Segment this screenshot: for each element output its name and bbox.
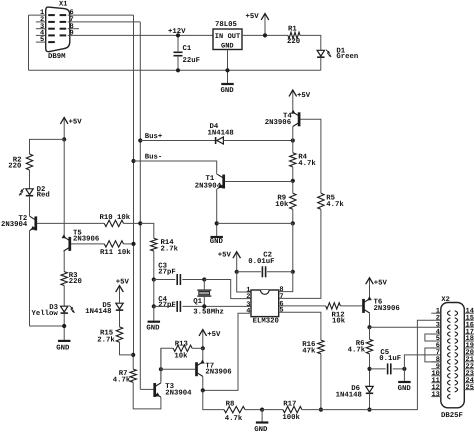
wire R16 bottom bbox=[320, 354, 322, 410]
wire Bus+ to D4 bbox=[140, 140, 215, 142]
resistor R6 bbox=[366, 339, 372, 354]
svg-text:4.7k: 4.7k bbox=[113, 376, 131, 385]
capacitor C5 bbox=[388, 363, 391, 374]
svg-text:13: 13 bbox=[431, 391, 439, 399]
svg-text:Q1: Q1 bbox=[193, 298, 202, 306]
label 2N3906 (T6) bbox=[374, 305, 400, 313]
label R13 bbox=[175, 340, 189, 348]
resistor R4 bbox=[290, 153, 296, 167]
label GND (crystal) bbox=[146, 324, 160, 332]
wire T6 collector bbox=[369, 313, 371, 327]
junction D3 bottom bbox=[62, 324, 66, 328]
svg-text:R17: R17 bbox=[283, 401, 296, 409]
X1 pin 2 lead bbox=[36, 21, 46, 23]
label GND (78L05) bbox=[221, 43, 234, 51]
wire C3 to crystal top bbox=[182, 279, 204, 281]
wire R6 to D6 bbox=[369, 354, 371, 387]
label X2 bbox=[441, 296, 449, 304]
label Q1 bbox=[193, 298, 202, 306]
svg-text:R13: R13 bbox=[175, 340, 189, 348]
junction R9 bottom bbox=[291, 221, 295, 225]
ground (T1) bbox=[210, 236, 223, 238]
label R11 10k bbox=[100, 248, 131, 257]
transistor T1 2N3904 bbox=[217, 174, 223, 188]
svg-text:+5V: +5V bbox=[246, 13, 260, 21]
svg-text:47k: 47k bbox=[302, 347, 316, 356]
X1 pin 3 number bbox=[40, 23, 44, 31]
svg-text:5: 5 bbox=[279, 307, 283, 315]
X2 pin 7 number bbox=[436, 349, 440, 357]
ELM320 pin 7 number bbox=[279, 293, 283, 301]
wire R12 to T6 base bbox=[340, 305, 362, 307]
X1 pin 3 lead bbox=[36, 28, 46, 30]
svg-text:2.7k: 2.7k bbox=[161, 244, 179, 253]
wire +5V to ELM320 pin1 bbox=[237, 272, 251, 292]
svg-text:GND: GND bbox=[210, 238, 224, 246]
wire C2 node to ELM320 pin8 bbox=[279, 272, 293, 292]
X2 pin 10 number bbox=[431, 370, 439, 378]
label Red bbox=[37, 191, 50, 200]
label D6 bbox=[351, 385, 360, 393]
ground (bottom) bbox=[256, 421, 269, 423]
label T3 bbox=[165, 383, 174, 391]
X1 pin 4 number bbox=[40, 30, 44, 38]
resistor R14 bbox=[151, 238, 157, 251]
svg-text:2N3904: 2N3904 bbox=[165, 390, 192, 398]
X2 pin 23 number bbox=[466, 370, 474, 378]
wire R17 to R16 node bbox=[302, 409, 321, 411]
junction 78L05 gnd on bus bbox=[225, 68, 229, 72]
label GND (bottom) bbox=[254, 426, 268, 432]
wire C3-C4 left column bbox=[153, 280, 155, 307]
wire Bus- to T1 bbox=[134, 161, 217, 175]
svg-text:ELM320: ELM320 bbox=[253, 318, 279, 326]
junction D4/T4/R4 bbox=[291, 138, 295, 142]
label 2N3904 (T3) bbox=[165, 390, 192, 398]
svg-text:10k: 10k bbox=[332, 317, 346, 326]
svg-text:GND: GND bbox=[221, 43, 234, 51]
svg-text:R10 10k: R10 10k bbox=[100, 213, 131, 222]
label 4.7k (R6) bbox=[348, 345, 366, 354]
label +12V bbox=[168, 28, 186, 36]
label T4 bbox=[283, 112, 292, 120]
junction +5V left bbox=[62, 137, 66, 141]
diode D6 1N4148 bbox=[366, 386, 373, 393]
wire crystal stubs bbox=[203, 280, 205, 307]
X2 jumper pin6-pin8 bbox=[425, 348, 441, 362]
X1 pin 5 number bbox=[40, 36, 44, 44]
label 2N3906 (T7) bbox=[205, 369, 231, 377]
label 27pF (C3) bbox=[158, 268, 176, 276]
wire T2 emitter down bbox=[29, 231, 31, 326]
label D3 bbox=[49, 304, 58, 312]
wire R7 top bbox=[132, 355, 134, 369]
ELM320 pin 2 number bbox=[246, 293, 250, 301]
label 220 (R2) bbox=[8, 162, 21, 170]
svg-text:R1: R1 bbox=[288, 25, 297, 33]
X2 pin 15 number bbox=[466, 314, 474, 322]
svg-text:R8: R8 bbox=[226, 401, 235, 409]
wire +5V to T7 emitter bbox=[202, 348, 204, 362]
svg-text:2N3906: 2N3906 bbox=[205, 369, 231, 377]
svg-text:0.1uF: 0.1uF bbox=[379, 355, 401, 363]
wire column to ground bbox=[153, 306, 155, 320]
X1 pin 9 number bbox=[70, 30, 74, 38]
ELM320 pin 8 number bbox=[279, 286, 283, 294]
capacitor C2 bbox=[262, 266, 265, 277]
wire D5 to R15 bbox=[119, 310, 121, 327]
svg-text:1N4148: 1N4148 bbox=[85, 308, 111, 316]
svg-text:Bus-: Bus- bbox=[145, 153, 163, 161]
X2 pin 6 lead bbox=[431, 347, 441, 349]
resistor R12 bbox=[326, 303, 341, 309]
wire R2 to D2 bbox=[29, 170, 31, 189]
wire C5 right to gnd column bbox=[393, 368, 405, 370]
wire C4 left bbox=[154, 305, 176, 307]
svg-text:27pF: 27pF bbox=[158, 302, 176, 310]
label 1N4148 (D5) bbox=[85, 308, 111, 316]
X2 pin 2 number bbox=[436, 314, 440, 322]
junction C3 left bbox=[152, 277, 156, 281]
svg-text:DB25F: DB25F bbox=[441, 412, 463, 420]
label R12 bbox=[332, 311, 345, 319]
svg-text:100k: 100k bbox=[282, 413, 300, 422]
regulator 78L05 box bbox=[213, 29, 242, 50]
svg-text:X1: X1 bbox=[59, 1, 67, 9]
svg-text:Green: Green bbox=[336, 53, 358, 61]
svg-text:2N3906: 2N3906 bbox=[73, 236, 99, 244]
X2 pin 9 number bbox=[436, 363, 440, 371]
X2 pin 17 number bbox=[466, 328, 474, 336]
label 4.7k (R7) bbox=[113, 376, 131, 385]
svg-text:10k: 10k bbox=[275, 200, 289, 209]
label D4 bbox=[210, 123, 219, 131]
junction R4/R9/T1 base bbox=[291, 179, 295, 183]
junction C2 right bbox=[291, 270, 295, 274]
X2 pin 5 lead bbox=[431, 340, 441, 342]
ELM320 pin 1 number bbox=[246, 286, 250, 294]
wire R8 to gnd node bbox=[245, 409, 262, 411]
label 1N4148 (D6) bbox=[336, 391, 362, 399]
svg-text:4.7k: 4.7k bbox=[298, 159, 316, 168]
resistor R13 bbox=[173, 345, 192, 351]
capacitor C4 bbox=[177, 301, 180, 312]
wire T7 base bbox=[161, 368, 195, 370]
wire T1 emitter down bbox=[216, 189, 218, 236]
wire +5V to C2 bbox=[237, 271, 261, 273]
ground bus wire bbox=[29, 69, 321, 71]
capacitor C3 bbox=[177, 274, 180, 285]
svg-text:R11 10k: R11 10k bbox=[100, 248, 131, 257]
wire gnd segment T1 to R9 bbox=[217, 222, 293, 224]
svg-text:3.58Mhz: 3.58Mhz bbox=[193, 308, 224, 317]
resistor R3 bbox=[61, 272, 67, 286]
junction C1 bottom bbox=[176, 68, 180, 72]
label GND (X2) bbox=[398, 385, 412, 393]
label 47k (R16) bbox=[302, 347, 316, 356]
X1 pin 2 number bbox=[40, 16, 44, 24]
wire D6 node to X2 pin2 bbox=[370, 320, 441, 409]
X1 pin 1 number bbox=[40, 9, 44, 17]
wire R4 to T1 base node bbox=[292, 167, 294, 193]
junction R7/R15/Bus- column bbox=[131, 353, 135, 357]
label 220 (R1) bbox=[287, 38, 300, 46]
label 2N3906 (T5) bbox=[73, 236, 99, 244]
label 22uF bbox=[183, 57, 201, 65]
label X1 bbox=[59, 1, 67, 9]
X2 pin 17 lead bbox=[464, 333, 474, 335]
X1 pin 8 number bbox=[70, 23, 74, 31]
wire R13 right to +5V column bbox=[192, 347, 203, 349]
label DB25F bbox=[441, 412, 463, 420]
ground (X2 pin7) bbox=[398, 381, 411, 383]
svg-text:220: 220 bbox=[287, 38, 300, 46]
IC U1 ELM320 body bbox=[251, 290, 279, 317]
svg-text:+5V: +5V bbox=[374, 279, 388, 287]
X2 pin 4 number bbox=[436, 328, 440, 336]
X2 pin 12 lead bbox=[431, 389, 441, 391]
label IN bbox=[215, 33, 223, 41]
label 1N4148 (D4) bbox=[208, 130, 234, 138]
label +5V (D5) bbox=[116, 279, 130, 287]
X2 pin 6 number bbox=[436, 342, 440, 350]
svg-text:GND: GND bbox=[146, 324, 160, 332]
ground (crystal) bbox=[148, 321, 161, 323]
X2 pin 21 number bbox=[466, 356, 474, 364]
wire T5 base to R11 bbox=[71, 243, 104, 245]
label R2 bbox=[13, 157, 22, 165]
svg-text:25: 25 bbox=[466, 384, 474, 392]
label C1 bbox=[183, 45, 192, 53]
transistor T7 2N3906 bbox=[197, 360, 205, 377]
transistor T6 2N3906 bbox=[364, 296, 372, 313]
wire C1 bottom bbox=[177, 56, 179, 71]
label 4.7k (R8) bbox=[225, 414, 243, 423]
svg-text:0.01uF: 0.01uF bbox=[248, 258, 274, 266]
resistor R17 bbox=[283, 406, 302, 412]
svg-text:DB9M: DB9M bbox=[48, 53, 66, 61]
wire T6 collector to X2 pin3 bbox=[370, 326, 441, 328]
wire R13 left elbow bbox=[161, 348, 173, 381]
label T6 bbox=[374, 299, 383, 307]
wire T7 collector bbox=[202, 376, 204, 390]
wire R3 to D3 bbox=[63, 286, 65, 307]
label R10 10k bbox=[100, 213, 131, 222]
wire ELM320 pin6 to R12 bbox=[279, 305, 326, 307]
X2 pin 19 number bbox=[466, 342, 474, 350]
X2 pin 15 lead bbox=[464, 319, 474, 321]
label ELM320 bbox=[253, 318, 279, 326]
X2 pin 1 lead bbox=[431, 312, 441, 314]
X2 pin 21 lead bbox=[464, 361, 474, 363]
wire 78L05 gnd bbox=[227, 50, 229, 84]
junction T1 emitter gnd wire bbox=[215, 221, 219, 225]
ground (D3) bbox=[58, 340, 70, 342]
wire R14 to C3 node bbox=[153, 251, 155, 280]
svg-text:+5V: +5V bbox=[116, 279, 130, 287]
wire T4 base to R5 column bbox=[301, 119, 321, 193]
svg-text:GND: GND bbox=[254, 426, 268, 432]
svg-text:+5V: +5V bbox=[207, 331, 221, 339]
X2 pin 4 lead bbox=[431, 333, 441, 335]
label R3 bbox=[69, 272, 78, 280]
junction T3 collector / T7 base bbox=[159, 367, 163, 371]
wire ELM320 pin5 to R16 bbox=[279, 312, 321, 340]
LED D1 bbox=[317, 50, 331, 58]
wire T3 collector up bbox=[160, 348, 162, 383]
wire Bus+ node to R4 bbox=[292, 141, 294, 153]
power +5V (regulator output) bbox=[261, 14, 269, 36]
label R8 bbox=[226, 401, 235, 409]
wire R9 bottom bbox=[292, 209, 294, 223]
crystal Q1 3.58MHz bbox=[197, 290, 211, 296]
svg-text:4.7k: 4.7k bbox=[225, 414, 243, 423]
label R7 bbox=[119, 370, 128, 378]
power +5V (left) bbox=[60, 118, 68, 140]
X2 pin 1 number bbox=[436, 307, 440, 315]
resistor R16 bbox=[318, 340, 324, 354]
label 78L05 bbox=[215, 21, 237, 29]
X1 pin 6 number bbox=[70, 9, 74, 17]
label 2.7k (R15) bbox=[97, 335, 115, 344]
svg-text:GND: GND bbox=[398, 385, 412, 393]
diode D4 1N4148 bbox=[216, 137, 224, 144]
label Bus- bbox=[145, 153, 163, 161]
label R1 bbox=[288, 25, 297, 33]
junction C5 left bbox=[367, 367, 371, 371]
svg-text:GND: GND bbox=[56, 344, 70, 352]
wire D3 bottom bbox=[63, 313, 65, 340]
junction Bus- bbox=[131, 159, 135, 163]
label +5V (T4) bbox=[297, 92, 311, 100]
wire D1 to ground bus bbox=[320, 57, 322, 70]
ELM320 pin 6 number bbox=[279, 300, 283, 308]
svg-text:2N3906: 2N3906 bbox=[265, 119, 291, 127]
label 3.58Mhz bbox=[193, 308, 224, 317]
transistor T5 2N3906 bbox=[62, 234, 70, 251]
X2 pin 3 number bbox=[436, 321, 440, 329]
X2 pin 16 number bbox=[466, 321, 474, 329]
label 0.01uF bbox=[248, 258, 274, 266]
svg-text:220: 220 bbox=[8, 162, 21, 170]
label 27pF (C4) bbox=[158, 302, 176, 310]
junction C1 top bbox=[176, 33, 180, 37]
svg-text:9: 9 bbox=[70, 30, 74, 38]
wire R1 to D1 bbox=[300, 35, 321, 50]
X2 pin 14 number bbox=[466, 307, 474, 315]
svg-text:+5V: +5V bbox=[218, 252, 232, 260]
ground (78L05) bbox=[221, 83, 234, 85]
svg-text:10k: 10k bbox=[174, 352, 188, 361]
X2 pin 20 number bbox=[466, 349, 474, 357]
wire C2 to pin8 column bbox=[267, 271, 293, 273]
wire C1 top bbox=[177, 35, 179, 51]
label +5V bbox=[246, 13, 260, 21]
power +5V (T7) bbox=[199, 330, 207, 349]
X2 pin 13 lead bbox=[431, 396, 441, 398]
wire R16 node to D6 node bbox=[321, 409, 370, 411]
wire +5V to T5 emitter bbox=[63, 139, 65, 237]
X2 pin 18 lead bbox=[464, 340, 474, 342]
wire C4 to ELM320 pin3 bbox=[182, 305, 251, 307]
resistor R8 bbox=[224, 406, 245, 412]
X2 pin 25 lead bbox=[464, 389, 474, 391]
label GND bbox=[221, 87, 235, 95]
power +5V (ELM320) bbox=[233, 252, 241, 272]
label R17 bbox=[283, 401, 296, 409]
LED D2 bbox=[19, 188, 33, 196]
svg-text:GND: GND bbox=[221, 87, 235, 95]
wire X1 pin6 vertical (Bus- feed) bbox=[133, 15, 135, 355]
X2 pin 8 lead bbox=[431, 361, 441, 363]
wire R5 to ELM320 pin7 bbox=[279, 209, 321, 298]
label 2.7k (R14) bbox=[161, 244, 179, 253]
junction C5 right bbox=[402, 367, 406, 371]
label R9 bbox=[277, 194, 286, 202]
label R14 bbox=[161, 239, 175, 247]
wire ELM320 pin4 to T7 collector bbox=[203, 313, 251, 390]
label 4.7k (R4) bbox=[298, 159, 316, 168]
wire R9 node to C2 node bbox=[292, 223, 294, 271]
wire T6 collector to R6 bbox=[369, 327, 371, 339]
label T2 bbox=[19, 215, 28, 223]
X2 pin 11 number bbox=[431, 377, 439, 385]
svg-text:2.7k: 2.7k bbox=[97, 335, 115, 344]
X2 pin 5 number bbox=[436, 335, 440, 343]
capacitor C1 bbox=[174, 52, 183, 55]
LED D3 bbox=[61, 306, 75, 314]
wire T3 emitter loop bbox=[133, 382, 161, 409]
X2 pin 18 number bbox=[466, 335, 474, 343]
svg-text:IN: IN bbox=[215, 33, 223, 41]
resistor R10 bbox=[104, 220, 123, 226]
label Green bbox=[336, 53, 358, 61]
resistor R7 bbox=[130, 369, 136, 382]
X2 pin 19 lead bbox=[464, 347, 474, 349]
label 0.1uF bbox=[379, 355, 401, 363]
svg-text:+5V: +5V bbox=[69, 118, 83, 126]
label 4.7k (R5) bbox=[326, 200, 344, 209]
label 2N3904 (T2) bbox=[1, 221, 28, 229]
wire X2 pin7 to ground bbox=[404, 355, 440, 381]
X2 pin contacts bbox=[448, 311, 458, 399]
label R6 bbox=[356, 340, 365, 348]
wire D4 to T4 node bbox=[223, 140, 292, 142]
X2 jumper pin4-pin5 bbox=[425, 334, 441, 341]
label R5 bbox=[326, 194, 335, 202]
junction Bus+ bbox=[138, 138, 142, 142]
resistor R15 bbox=[116, 327, 122, 342]
svg-text:4.7k: 4.7k bbox=[326, 200, 344, 209]
svg-text:27pF: 27pF bbox=[158, 268, 176, 276]
resistor R1 bbox=[288, 32, 300, 38]
wire D6 bottom bbox=[369, 393, 371, 409]
svg-text:1N4148: 1N4148 bbox=[208, 130, 234, 138]
label 10k (R9) bbox=[275, 200, 289, 209]
X2 pin 25 number bbox=[466, 384, 474, 392]
power +5V (D5) bbox=[116, 286, 124, 304]
wire crystal top to ELM320 pin2 bbox=[204, 280, 251, 299]
ELM320 pin 3 number bbox=[246, 301, 250, 309]
label GND (T1) bbox=[210, 238, 224, 246]
label T7 bbox=[205, 362, 214, 370]
junction R11 on Bus- vertical bbox=[131, 242, 135, 246]
label 2N3906 (T4) bbox=[265, 119, 291, 127]
transistor T2 2N3904 bbox=[30, 216, 36, 230]
label T5 bbox=[73, 230, 82, 238]
wire R11 to Bus- vertical bbox=[124, 243, 134, 245]
label C3 bbox=[158, 262, 167, 270]
